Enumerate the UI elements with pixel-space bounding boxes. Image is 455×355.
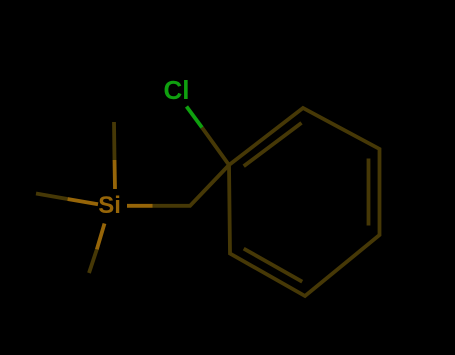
svg-text:Si: Si bbox=[98, 192, 121, 219]
svg-text:Cl: Cl bbox=[164, 75, 190, 105]
